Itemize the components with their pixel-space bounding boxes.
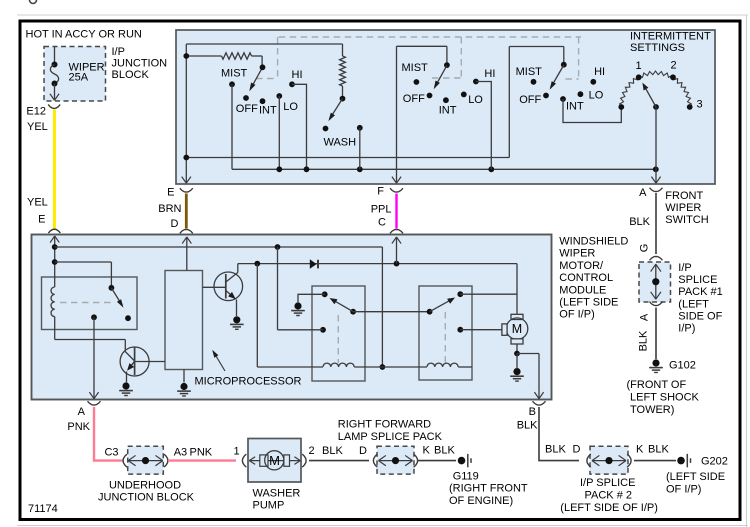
svg-text:BLK: BLK [648, 444, 669, 456]
svg-text:PPL: PPL [371, 204, 392, 216]
svg-text:BRN: BRN [158, 203, 181, 215]
svg-text:MIST: MIST [402, 62, 429, 74]
svg-text:PUMP: PUMP [253, 500, 285, 512]
svg-text:1: 1 [233, 446, 239, 458]
svg-text:G202: G202 [701, 456, 728, 468]
svg-text:INTERMITTENT: INTERMITTENT [630, 31, 711, 43]
svg-text:SETTINGS: SETTINGS [630, 42, 685, 54]
svg-text:OFF: OFF [519, 94, 541, 106]
svg-text:E: E [38, 214, 45, 226]
svg-text:B: B [529, 406, 536, 418]
svg-text:E12: E12 [26, 106, 46, 118]
svg-text:K: K [423, 445, 431, 457]
svg-text:MIST: MIST [516, 66, 543, 78]
svg-text:D: D [170, 218, 178, 230]
svg-text:A: A [78, 406, 86, 418]
svg-text:I/P: I/P [112, 46, 125, 58]
svg-text:HI: HI [292, 69, 303, 81]
svg-text:RIGHT FORWARD: RIGHT FORWARD [338, 419, 431, 431]
svg-text:BLOCK: BLOCK [112, 69, 150, 81]
svg-text:SWITCH: SWITCH [665, 214, 708, 226]
svg-text:A: A [638, 313, 650, 321]
svg-text:D: D [573, 444, 581, 456]
svg-text:TOWER): TOWER) [630, 404, 674, 416]
svg-text:YEL: YEL [27, 197, 48, 209]
svg-text:HI: HI [594, 66, 605, 78]
svg-text:BLK: BLK [322, 445, 343, 457]
svg-text:I/P SPLICE: I/P SPLICE [580, 477, 635, 489]
svg-text:D: D [359, 445, 367, 457]
svg-text:(RIGHT FRONT: (RIGHT FRONT [449, 483, 528, 495]
svg-text:WIPER: WIPER [665, 202, 701, 214]
svg-text:PACK #1: PACK #1 [678, 286, 722, 298]
svg-text:BLK: BLK [434, 445, 455, 457]
svg-text:2: 2 [670, 60, 676, 72]
svg-text:(LEFT SIDE: (LEFT SIDE [666, 471, 725, 483]
svg-text:WASH: WASH [324, 137, 357, 149]
svg-text:C: C [378, 216, 386, 228]
svg-text:INT: INT [439, 104, 457, 116]
svg-text:INT: INT [566, 101, 584, 113]
svg-text:HOT IN ACCY OR RUN: HOT IN ACCY OR RUN [26, 29, 142, 41]
svg-text:(LEFT: (LEFT [678, 298, 709, 310]
svg-text:F: F [377, 186, 384, 198]
svg-text:G102: G102 [669, 359, 696, 371]
svg-text:LO: LO [468, 94, 483, 106]
svg-text:MICROPROCESSOR: MICROPROCESSOR [195, 376, 302, 388]
svg-text:(FRONT OF: (FRONT OF [627, 379, 687, 391]
svg-text:LO: LO [589, 90, 604, 102]
svg-text:G119: G119 [453, 471, 479, 483]
svg-text:UNDERHOOD: UNDERHOOD [109, 480, 181, 492]
svg-text:SPLICE: SPLICE [678, 274, 717, 286]
svg-text:3: 3 [696, 99, 702, 111]
svg-text:A3: A3 [174, 446, 187, 458]
svg-text:WINDSHIELD: WINDSHIELD [559, 236, 628, 248]
svg-text:G: G [638, 244, 650, 253]
svg-text:MIST: MIST [221, 68, 248, 80]
svg-text:A: A [639, 187, 647, 199]
svg-text:71174: 71174 [28, 503, 58, 515]
svg-text:K: K [636, 444, 644, 456]
svg-text:SIDE OF: SIDE OF [678, 310, 722, 322]
svg-text:BLK: BLK [629, 216, 650, 228]
svg-text:C3: C3 [104, 446, 118, 458]
svg-text:MOTOR/: MOTOR/ [559, 260, 604, 272]
svg-text:MODULE: MODULE [559, 284, 606, 296]
svg-text:I/P): I/P) [678, 323, 695, 335]
svg-text:LAMP SPLICE PACK: LAMP SPLICE PACK [338, 431, 443, 443]
svg-text:1: 1 [635, 60, 641, 72]
svg-text:PACK # 2: PACK # 2 [585, 490, 633, 502]
svg-text:BLK: BLK [545, 444, 566, 456]
svg-text:M: M [512, 322, 522, 336]
svg-text:PNK: PNK [190, 446, 213, 458]
svg-text:M: M [269, 453, 280, 468]
svg-text:HI: HI [484, 68, 495, 80]
svg-text:OFF: OFF [403, 93, 425, 105]
svg-text:WIPER: WIPER [559, 248, 595, 260]
svg-text:CONTROL: CONTROL [559, 272, 613, 284]
svg-text:25A: 25A [69, 71, 89, 83]
svg-text:LO: LO [283, 101, 298, 113]
svg-text:INT: INT [259, 105, 277, 117]
svg-text:(LEFT SIDE: (LEFT SIDE [559, 297, 618, 309]
svg-text:JUNCTION BLOCK: JUNCTION BLOCK [98, 492, 195, 504]
svg-text:BLK: BLK [638, 330, 650, 351]
svg-text:OF I/P): OF I/P) [559, 309, 594, 321]
svg-text:2: 2 [309, 445, 315, 457]
svg-text:JUNCTION: JUNCTION [112, 58, 168, 70]
svg-text:I/P: I/P [678, 262, 691, 274]
svg-text:FRONT: FRONT [665, 190, 703, 202]
svg-text:PNK: PNK [67, 421, 90, 433]
svg-text:LEFT SHOCK: LEFT SHOCK [630, 391, 700, 403]
svg-text:OF ENGINE): OF ENGINE) [449, 495, 513, 507]
svg-text:E: E [167, 187, 174, 199]
svg-text:OFF: OFF [236, 103, 258, 115]
svg-text:YEL: YEL [27, 121, 48, 133]
svg-text:WASHER: WASHER [253, 488, 301, 500]
svg-text:BLK: BLK [517, 420, 538, 432]
svg-text:OF I/P): OF I/P) [666, 484, 701, 496]
svg-text:(LEFT SIDE OF I/P): (LEFT SIDE OF I/P) [560, 502, 658, 514]
